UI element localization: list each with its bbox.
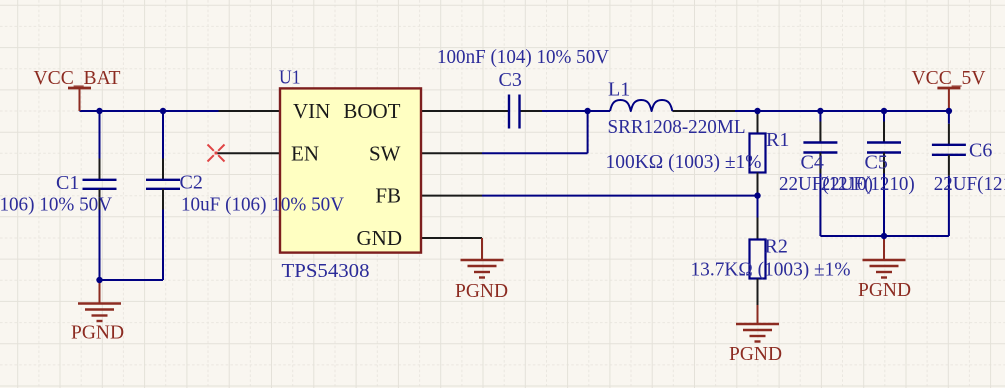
svg-text:BOOT: BOOT bbox=[343, 99, 400, 123]
svg-text:TPS54308: TPS54308 bbox=[282, 260, 370, 282]
svg-text:PGND: PGND bbox=[455, 280, 508, 302]
svg-text:SW: SW bbox=[369, 141, 401, 165]
svg-text:U1: U1 bbox=[279, 67, 301, 89]
svg-text:R2: R2 bbox=[765, 236, 788, 258]
svg-text:VIN: VIN bbox=[293, 99, 330, 123]
svg-text:100nF (104) 10% 50V: 100nF (104) 10% 50V bbox=[437, 46, 610, 68]
svg-text:R1: R1 bbox=[766, 129, 789, 151]
svg-text:10uF (106) 10% 50V: 10uF (106) 10% 50V bbox=[0, 194, 113, 216]
svg-text:100KΩ (1003) ±1%: 100KΩ (1003) ±1% bbox=[606, 151, 762, 173]
svg-text:GND: GND bbox=[357, 226, 403, 250]
svg-text:L1: L1 bbox=[608, 79, 630, 101]
svg-text:C4: C4 bbox=[801, 151, 824, 173]
svg-text:EN: EN bbox=[291, 141, 319, 165]
svg-text:C6: C6 bbox=[969, 140, 992, 162]
svg-text:PGND: PGND bbox=[858, 279, 911, 301]
svg-text:FB: FB bbox=[375, 184, 401, 208]
svg-text:C2: C2 bbox=[180, 172, 203, 194]
svg-text:C5: C5 bbox=[865, 151, 888, 173]
svg-text:C1: C1 bbox=[56, 172, 79, 194]
svg-text:PGND: PGND bbox=[71, 322, 124, 344]
svg-text:PGND: PGND bbox=[729, 343, 782, 365]
svg-text:10uF (106) 10% 50V: 10uF (106) 10% 50V bbox=[181, 194, 345, 216]
svg-text:SRR1208-220ML: SRR1208-220ML bbox=[608, 116, 746, 138]
svg-text:22UF(1210): 22UF(1210) bbox=[821, 173, 915, 195]
svg-text:C3: C3 bbox=[499, 69, 522, 91]
svg-text:VCC_5V: VCC_5V bbox=[912, 67, 987, 89]
svg-text:VCC_BAT: VCC_BAT bbox=[34, 67, 121, 89]
svg-text:22UF(1210): 22UF(1210) bbox=[934, 173, 1005, 195]
svg-text:13.7KΩ (1003) ±1%: 13.7KΩ (1003) ±1% bbox=[691, 259, 851, 281]
